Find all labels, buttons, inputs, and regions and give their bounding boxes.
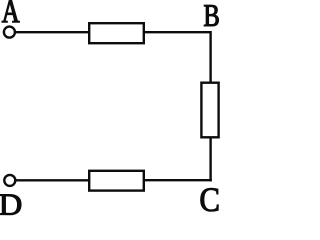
node label A bbox=[2, 0, 19, 22]
terminal A (open circle) bbox=[4, 27, 15, 38]
node label D bbox=[0, 195, 21, 215]
resistor R3 (C-D branch) bbox=[89, 171, 144, 191]
wire R3 to D bbox=[16, 179, 90, 181]
wire R1 to corner B bbox=[144, 31, 211, 33]
node label C bbox=[201, 188, 219, 211]
wire A to R1 bbox=[16, 31, 90, 33]
wire corner B down to R2 bbox=[209, 31, 211, 83]
resistor R2 (B-C branch, vertical) bbox=[201, 83, 218, 138]
wire R2 down to corner C bbox=[209, 137, 211, 181]
terminal D (open circle) bbox=[4, 175, 15, 186]
wire corner C to R3 bbox=[144, 179, 212, 181]
resistor R1 (A-B branch) bbox=[89, 23, 144, 43]
node label B bbox=[204, 5, 218, 26]
